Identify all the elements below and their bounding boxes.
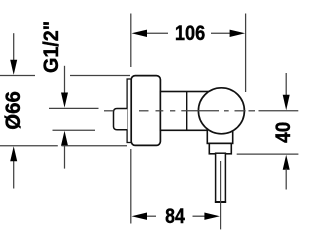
valve body — [160, 92, 220, 131]
84 dimension line left segment — [146, 215, 156, 217]
dia66 top extension line segment b — [70, 75, 130, 77]
106 right arrowhead — [230, 30, 246, 37]
outlet pipe end cap line — [215, 201, 226, 203]
dia66 top extension line segment a — [0, 75, 35, 77]
G1/2 upper arrow shaft — [64, 66, 66, 93]
106 dimension line right segment — [211, 32, 231, 34]
dia66 bottom extension line segment b — [62, 145, 128, 147]
106 left extension line — [130, 14, 132, 68]
dia66 upper arrow shaft — [13, 33, 15, 60]
40 lower arrowhead — [283, 155, 290, 170]
svg-text:G1/2": G1/2" — [39, 21, 63, 73]
centerline dash 8 — [249, 110, 256, 112]
svg-text:106: 106 — [175, 22, 205, 46]
106 dimension line left segment — [146, 32, 168, 34]
centerline dash 3 — [156, 110, 164, 112]
body joint line — [186, 92, 188, 131]
dia66 bottom extension line segment a — [0, 145, 58, 147]
escutcheon flange — [131, 76, 160, 146]
106 right extension line — [245, 14, 247, 93]
outlet pipe — [216, 153, 226, 202]
G1/2 bottom extension line — [53, 129, 96, 131]
centerline dash 5 — [181, 110, 219, 112]
84 left arrowhead — [132, 213, 148, 220]
40 upper arrowhead — [283, 95, 290, 111]
G1/2 lower arrow shaft — [64, 145, 66, 169]
dia66 lower arrowhead — [10, 146, 17, 161]
dia66 lower arrow shaft — [13, 160, 15, 189]
svg-text:Ø66: Ø66 — [2, 91, 26, 130]
knob neck lower — [209, 143, 231, 153]
centerline dash 6 — [224, 110, 229, 112]
centerline dash 2 — [139, 110, 149, 112]
40 lower arrow shaft — [285, 169, 287, 190]
84 right arrowhead — [204, 213, 220, 220]
40 upper arrow shaft — [285, 73, 287, 95]
40-dim top extension line — [259, 110, 299, 112]
106 left arrowhead — [132, 30, 148, 37]
84 outlet centerline extension — [220, 161, 222, 229]
centerline dash 7 — [235, 110, 246, 112]
84 dimension line right segment — [193, 215, 206, 217]
G1/2 wall connector — [114, 109, 128, 130]
G1/2 lower arrowhead — [61, 131, 68, 146]
svg-text:40: 40 — [272, 122, 295, 143]
84 left extension line — [130, 149, 132, 224]
centerline dash 1 — [104, 110, 114, 112]
centerline dash 4 — [170, 110, 175, 112]
knob neck upper — [207, 120, 232, 143]
G1/2 upper arrowhead — [61, 93, 68, 108]
G1/2 top extension line — [49, 107, 99, 109]
40 bottom extension line — [237, 153, 299, 155]
svg-text:84: 84 — [165, 204, 185, 228]
dia66 upper arrowhead — [10, 60, 17, 75]
control knob circle — [198, 88, 244, 134]
wall plate strip — [127, 79, 131, 143]
